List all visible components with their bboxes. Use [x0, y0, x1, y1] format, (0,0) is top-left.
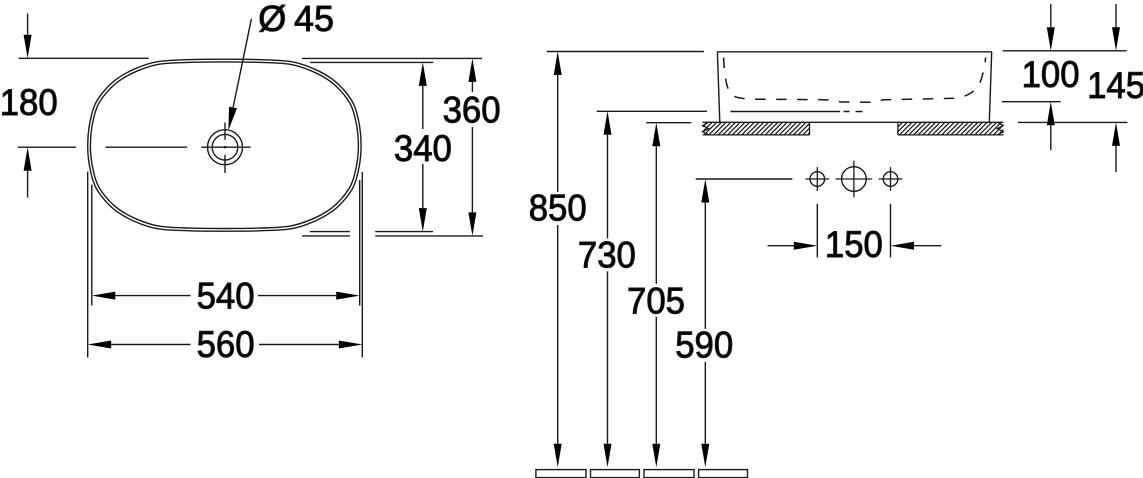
svg-text:Ø: Ø [258, 0, 286, 39]
svg-text:705: 705 [627, 280, 685, 321]
svg-text:850: 850 [529, 188, 587, 229]
svg-text:340: 340 [394, 128, 452, 169]
svg-text:560: 560 [197, 324, 255, 365]
svg-text:150: 150 [825, 224, 883, 265]
svg-text:45: 45 [294, 0, 334, 39]
svg-text:540: 540 [197, 275, 255, 316]
svg-text:730: 730 [578, 235, 636, 276]
svg-text:180: 180 [0, 82, 58, 123]
svg-text:145: 145 [1087, 65, 1143, 106]
svg-text:100: 100 [1022, 54, 1080, 95]
svg-text:360: 360 [443, 89, 501, 130]
svg-text:590: 590 [675, 324, 733, 365]
